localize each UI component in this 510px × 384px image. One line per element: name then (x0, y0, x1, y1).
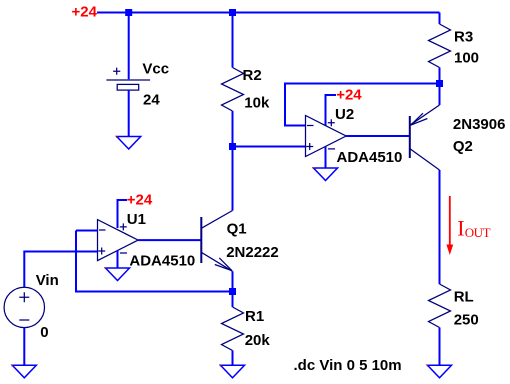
svg-text:ADA4510: ADA4510 (129, 252, 195, 269)
svg-text:0: 0 (40, 324, 48, 341)
wire rail to R3 (439, 13, 441, 25)
svg-text:I: I (457, 215, 464, 240)
ground (U1) (105, 268, 130, 281)
junction top rail at Vcc (125, 9, 132, 16)
wire node A to Q1 collector (232, 147, 234, 211)
svg-text:Vcc: Vcc (142, 60, 169, 77)
transistor Q1 (NPN 2N2222) (201, 211, 232, 272)
svg-text:Q1: Q1 (227, 220, 247, 237)
wire U1 - input stub (76, 230, 98, 232)
wire U2 +24 supply stub (326, 95, 337, 126)
svg-text:2N2222: 2N2222 (226, 244, 279, 261)
svg-text:250: 250 (454, 311, 479, 328)
wire top rail (97, 12, 440, 14)
wire feedback Q1 emitter to U1 - input (76, 231, 233, 292)
wire U2 V- to ground (325, 146, 327, 168)
svg-text:U2: U2 (335, 106, 354, 123)
ground (RL) (427, 365, 452, 378)
svg-text:R1: R1 (245, 308, 264, 325)
wire R2 to node A (232, 111, 234, 147)
junction node B (R3 / Q2 emitter / U2 feedback) (436, 80, 443, 87)
wire U1 output to Q1 base (138, 239, 201, 241)
wire node B to Q2 emitter (439, 84, 441, 106)
svg-text:.dc Vin 0 5 10m: .dc Vin 0 5 10m (294, 357, 402, 374)
voltage source Vin (4, 287, 44, 327)
svg-text:Q2: Q2 (453, 138, 473, 155)
wire rail to R2 (232, 13, 234, 68)
svg-text:10k: 10k (244, 94, 270, 111)
ground (Vin) (12, 365, 37, 378)
svg-text:U1: U1 (127, 211, 146, 228)
svg-text:R3: R3 (454, 28, 473, 45)
wire battery to ground (128, 90, 130, 137)
wire Q1 emitter down (232, 271, 234, 291)
ground (Vcc) (116, 136, 141, 149)
op-amp U1 (98, 220, 139, 261)
transistor Q2 (PNP 2N3906) (410, 105, 440, 170)
wire RL to ground (439, 328, 441, 366)
current arrow IOUT (446, 196, 453, 255)
wire Q2 collector to RL (439, 170, 441, 284)
junction node A (R2 / Q1 collector / U2 +in) (229, 143, 236, 150)
junction top rail at R2 (229, 9, 236, 16)
op-amp U2 (306, 116, 347, 157)
svg-text:ADA4510: ADA4510 (337, 149, 403, 166)
svg-text:+24: +24 (72, 3, 98, 20)
resistor R2 (222, 68, 244, 112)
svg-text:+24: +24 (127, 191, 153, 208)
wire node A to U2 + input (233, 146, 306, 148)
wire R3 to node B (439, 68, 441, 84)
wire R1 to ground (232, 351, 234, 366)
voltage source Vcc (battery symbol) (106, 68, 150, 91)
svg-text:R2: R2 (243, 67, 262, 84)
wire U1 +24 supply stub (118, 200, 128, 228)
svg-text:24: 24 (143, 92, 160, 109)
svg-text:100: 100 (454, 49, 479, 66)
resistor R3 (429, 24, 451, 68)
resistor RL (429, 284, 451, 328)
svg-text:OUT: OUT (465, 225, 491, 240)
wire rail to Vcc battery (128, 13, 130, 80)
svg-text:20k: 20k (245, 332, 271, 349)
svg-text:Vin: Vin (36, 272, 59, 289)
wire Vin to ground (23, 328, 25, 366)
wire U1 V- to ground (117, 250, 119, 268)
ground (U2) (313, 168, 338, 181)
ground (R1) (220, 365, 245, 378)
svg-text:+24: +24 (336, 86, 362, 103)
wire U2 output to Q2 base (346, 135, 409, 137)
resistor R1 (222, 307, 244, 351)
wire node C to R1 (232, 292, 234, 308)
svg-text:RL: RL (454, 288, 474, 305)
wire feedback node B to U2 - input (285, 84, 440, 126)
svg-text:2N3906: 2N3906 (453, 116, 506, 133)
wire Vin to U1 + input (24, 252, 97, 288)
junction node C (Q1 emitter / R1 / feedback) (229, 288, 236, 295)
